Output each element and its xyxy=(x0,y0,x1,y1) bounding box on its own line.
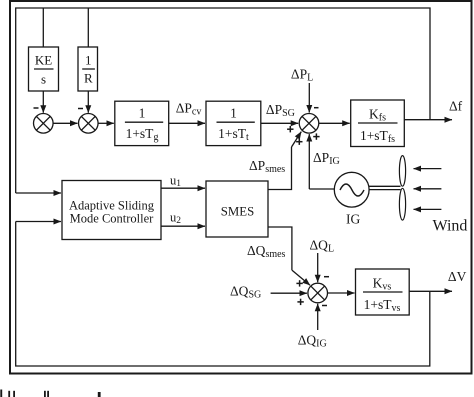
svg-text:ΔPcv: ΔPcv xyxy=(176,101,202,118)
svg-text:KE: KE xyxy=(35,53,52,68)
svg-text:u1: u1 xyxy=(170,174,181,190)
svg-text:1: 1 xyxy=(85,53,92,68)
svg-text:Wind: Wind xyxy=(433,218,468,235)
svg-text:Mode Controller: Mode Controller xyxy=(70,212,155,226)
svg-text:ΔQsmes: ΔQsmes xyxy=(247,243,286,260)
svg-text:ΔQL: ΔQL xyxy=(310,238,335,255)
svg-text:ΔPSG: ΔPSG xyxy=(266,102,295,119)
svg-text:1+sTt: 1+sTt xyxy=(218,126,249,143)
svg-text:ΔPIG: ΔPIG xyxy=(313,150,340,167)
svg-text:Δf: Δf xyxy=(449,99,463,114)
svg-text:ΔQIG: ΔQIG xyxy=(298,333,327,350)
svg-text:1: 1 xyxy=(139,106,146,121)
svg-text:R: R xyxy=(84,71,93,86)
svg-text:ΔQSG: ΔQSG xyxy=(230,284,261,301)
svg-text:SMES: SMES xyxy=(221,204,254,218)
svg-text:ΔPsmes: ΔPsmes xyxy=(249,158,285,175)
svg-text:u2: u2 xyxy=(170,211,181,227)
svg-text:ΔPL: ΔPL xyxy=(291,67,313,84)
svg-text:1+sTfs: 1+sTfs xyxy=(360,128,395,145)
svg-text:Kfs: Kfs xyxy=(369,107,386,124)
svg-text:Kvs: Kvs xyxy=(373,276,392,293)
svg-text:1: 1 xyxy=(230,106,237,121)
svg-text:ΔV: ΔV xyxy=(448,269,467,284)
svg-text:1+sTvs: 1+sTvs xyxy=(364,297,401,314)
svg-text:1+sTg: 1+sTg xyxy=(126,126,159,143)
svg-text:s: s xyxy=(41,72,46,87)
svg-text:IG: IG xyxy=(346,212,360,227)
svg-text:Adaptive Sliding: Adaptive Sliding xyxy=(69,198,155,212)
